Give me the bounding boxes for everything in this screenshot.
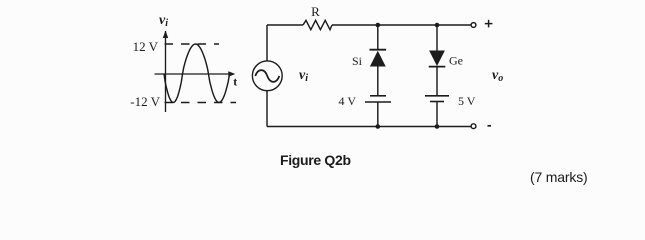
wire top right of resistor: [332, 24, 471, 26]
AC source sine symbol: [255, 70, 279, 82]
resistor R: [303, 20, 332, 29]
battery 5V long plate: [425, 95, 449, 97]
wire left vertical above source: [266, 25, 268, 62]
wire Ge branch upper: [436, 25, 438, 51]
wire Si branch lower: [377, 102, 379, 127]
waveform t axis arrowhead: [228, 71, 235, 76]
diode Ge triangle: [429, 51, 445, 67]
diode Ge cathode bar: [429, 66, 446, 68]
waveform vi axis vertical arrowhead: [163, 31, 168, 39]
wire top from source to terminal: [267, 24, 303, 26]
diode Si cathode bar: [370, 49, 387, 51]
svg-text:R: R: [311, 4, 320, 19]
battery 5V short plate: [430, 101, 444, 103]
dashed line +12 level: [165, 43, 220, 45]
svg-text:Figure Q2b: Figure Q2b: [280, 152, 351, 168]
node junction top Ge: [435, 23, 440, 28]
wire Ge branch lower: [436, 102, 438, 127]
node junction bottom Ge: [435, 124, 440, 129]
node junction bottom Si: [376, 124, 381, 129]
diode Si triangle: [370, 51, 386, 67]
svg-text:5 V: 5 V: [458, 94, 476, 108]
label plus: [485, 20, 493, 28]
battery 4V short plate: [370, 95, 386, 97]
wire bottom: [267, 126, 471, 128]
svg-text:-12 V: -12 V: [130, 94, 160, 109]
wire Si branch middle: [377, 67, 379, 96]
battery 4V long plate: [365, 101, 391, 103]
waveform t axis horizontal: [155, 73, 230, 75]
label minus: [488, 125, 492, 127]
wire left vertical below source: [266, 90, 268, 126]
svg-text:(7 marks): (7 marks): [530, 169, 588, 185]
node junction top Si: [376, 23, 381, 28]
svg-text:t: t: [233, 75, 237, 89]
terminal negative open circle: [471, 124, 476, 129]
svg-text:vo: vo: [492, 68, 503, 84]
svg-text:Si: Si: [352, 54, 363, 68]
wire Ge branch middle: [436, 67, 438, 96]
svg-text:Ge: Ge: [449, 54, 463, 68]
AC source circle: [252, 61, 282, 91]
svg-text:vi: vi: [159, 13, 168, 29]
terminal positive open circle: [471, 23, 476, 28]
waveform vi axis vertical: [165, 31, 167, 112]
sine waveform vi curve: [164, 44, 230, 102]
wire Si branch upper: [377, 25, 379, 50]
svg-text:vi: vi: [299, 68, 308, 84]
svg-text:12 V: 12 V: [133, 39, 159, 54]
dashed line -12 level: [165, 102, 237, 104]
svg-text:4 V: 4 V: [339, 94, 357, 108]
